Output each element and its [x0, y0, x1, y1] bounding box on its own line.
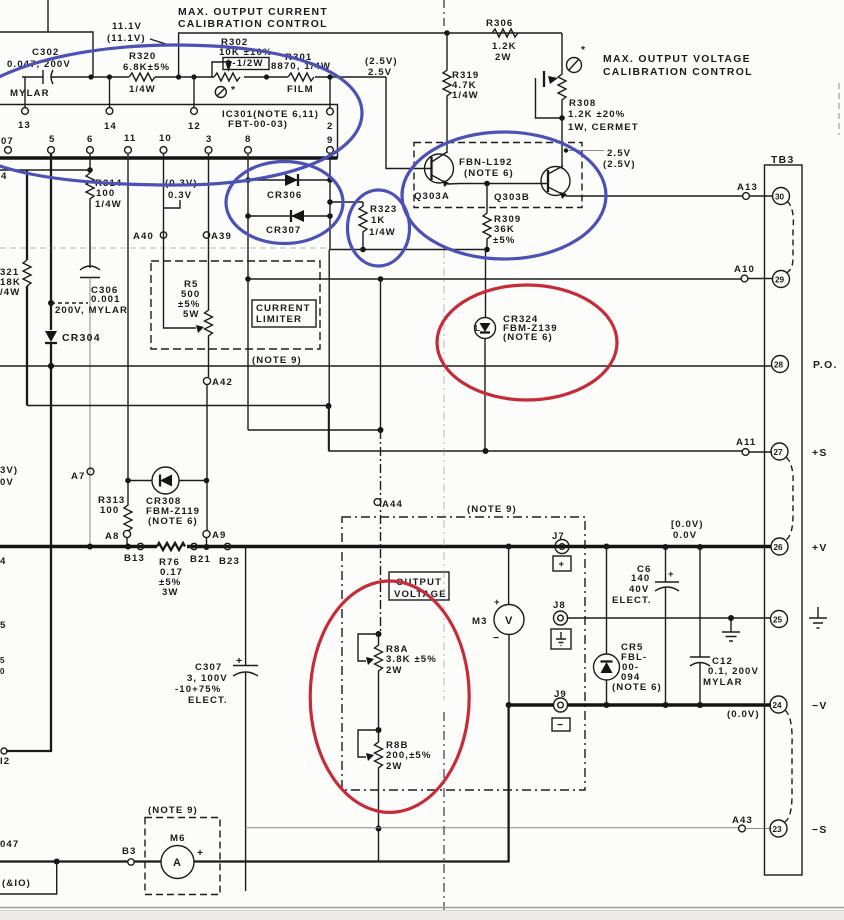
- wire -V rail y705: [509, 703, 771, 706]
- svg-text:200,±5%: 200,±5%: [386, 750, 432, 761]
- svg-text:5: 5: [0, 656, 5, 665]
- potentiometer R5: [196, 325, 204, 333]
- terminal 24: [770, 696, 787, 713]
- svg-text:A13: A13: [737, 182, 758, 193]
- wire P.O. net y365.5: [0, 365, 771, 367]
- pin 10 column wiper wire: [164, 153, 197, 328]
- svg-text:1/4W: 1/4W: [95, 199, 122, 210]
- wire A43 net y828: [246, 827, 739, 829]
- wire 11.1V node y77: [91, 76, 214, 78]
- svg-text:B3: B3: [122, 846, 136, 857]
- svg-text:1/4W: 1/4W: [369, 227, 396, 238]
- svg-text:0.1, 200V: 0.1, 200V: [708, 666, 759, 677]
- svg-text:(NOTE 6): (NOTE 6): [464, 168, 514, 179]
- terminal 28: [772, 356, 789, 373]
- svg-text:9: 9: [327, 135, 333, 146]
- dashed box output section: [342, 517, 585, 790]
- svg-text:(NOTE 6): (NOTE 6): [612, 682, 662, 693]
- svg-text:B13: B13: [124, 553, 145, 564]
- svg-text:2W: 2W: [495, 52, 512, 63]
- svg-text:12: 12: [188, 121, 201, 132]
- ground symbol TB25: [809, 607, 827, 628]
- wire stub to (&amp;10) box: [0, 862, 57, 895]
- junction R323 tap: [327, 199, 333, 205]
- svg-text:1K: 1K: [371, 215, 385, 226]
- svg-text:LIMITER: LIMITER: [256, 314, 302, 325]
- svg-text:R323: R323: [370, 204, 397, 215]
- ground box below J8: [551, 629, 571, 649]
- wire A44 column upper: [380, 279, 382, 430]
- svg-text:+: +: [494, 597, 501, 608]
- junction CR308 left: [125, 478, 131, 484]
- svg-text:FBN-L192: FBN-L192: [459, 157, 513, 168]
- svg-text:MYLAR: MYLAR: [703, 677, 743, 688]
- diode CR5: [606, 547, 608, 655]
- svg-text:/4W: /4W: [0, 287, 20, 298]
- svg-text:3W: 3W: [162, 587, 179, 598]
- top-right cut dashes: [838, 83, 840, 135]
- junction CR306 left: [245, 177, 251, 183]
- junction R8B top: [376, 727, 382, 733]
- svg-text:(NOTE 9): (NOTE 9): [252, 355, 302, 366]
- junction M6 left tap: [54, 859, 60, 865]
- svg-text:4: 4: [1, 171, 7, 182]
- diode CR324: [485, 250, 487, 318]
- svg-text:047: 047: [0, 839, 19, 850]
- svg-text:24: 24: [773, 701, 783, 710]
- svg-text:1.2K: 1.2K: [492, 41, 517, 52]
- svg-text:11: 11: [124, 133, 136, 144]
- junction: [88, 74, 93, 79]
- svg-text:1/4W: 1/4W: [452, 90, 479, 101]
- annotation red ellipse output voltage: [310, 581, 469, 812]
- junction: [107, 74, 112, 79]
- pin 6 column upper: [89, 153, 91, 173]
- wire net4 y170: [0, 169, 90, 171]
- junction CR304 bottom: [48, 363, 54, 369]
- svg-text:23: 23: [773, 825, 783, 834]
- node I2: [1, 748, 7, 754]
- junction C306 jog: [48, 300, 54, 306]
- svg-text:13: 13: [18, 120, 31, 131]
- IC301 box: [0, 105, 338, 158]
- junction rail C12: [697, 544, 703, 550]
- wire Q303A emitter to Q303B base: [448, 183, 548, 186]
- svg-text:*: *: [581, 45, 586, 56]
- junction -V CR5: [604, 702, 610, 708]
- junction CR306 right: [327, 177, 333, 183]
- svg-text:8: 8: [245, 134, 251, 145]
- svg-text:+S: +S: [812, 448, 828, 459]
- svg-text:A: A: [173, 857, 181, 869]
- svg-text:0.3V: 0.3V: [168, 190, 192, 201]
- wire M6 output y861.5: [0, 860, 380, 862]
- junction -V C12: [697, 702, 703, 708]
- sheet fold dash line x444: [443, 0, 445, 30]
- terminal 30: [773, 188, 790, 205]
- svg-text:CURRENT: CURRENT: [256, 303, 311, 314]
- faint scan line y248: [0, 247, 330, 249]
- svg-text:+: +: [236, 656, 243, 667]
- svg-text:J8: J8: [553, 600, 566, 611]
- svg-text:0V: 0V: [0, 477, 14, 488]
- svg-text:C307: C307: [195, 662, 222, 673]
- transistor Q303A: [425, 154, 454, 183]
- trimmer symbol R308: [567, 58, 582, 73]
- svg-text:3: 3: [206, 134, 212, 145]
- capacitor C12: [699, 547, 701, 658]
- svg-text:100: 100: [100, 505, 119, 516]
- svg-text:1-1/2W: 1-1/2W: [226, 58, 264, 69]
- wire bias node y249.5: [330, 249, 487, 251]
- junction CR304 net on P.O. line: [48, 363, 54, 369]
- svg-text:5W: 5W: [183, 309, 200, 320]
- resistor R321: [26, 170, 28, 260]
- svg-text:MAX. OUTPUT VOLTAGE: MAX. OUTPUT VOLTAGE: [603, 54, 751, 65]
- trimmer symbol R302: [215, 87, 226, 98]
- svg-text:ELECT.: ELECT.: [612, 595, 652, 606]
- capacitor C307: [245, 547, 247, 666]
- svg-text:A39: A39: [211, 231, 232, 242]
- wire A42 to A9: [206, 385, 208, 530]
- junction: [176, 74, 181, 79]
- svg-text:2W: 2W: [386, 761, 403, 772]
- junction rail x128: [125, 544, 131, 550]
- svg-text:CR307: CR307: [266, 225, 301, 236]
- wire jog to C306: [51, 302, 88, 304]
- svg-text:2.5V: 2.5V: [368, 67, 392, 78]
- svg-text:140: 140: [631, 573, 650, 584]
- resistor R314: [86, 173, 94, 268]
- svg-text:1W, CERMET: 1W, CERMET: [568, 122, 639, 133]
- junction CR307 right: [327, 213, 333, 219]
- wire y33 control line: [179, 33, 562, 77]
- svg-text:1/4W: 1/4W: [129, 84, 156, 95]
- resistor R320: [129, 73, 155, 81]
- wire y430: [248, 429, 381, 431]
- svg-text:14: 14: [104, 121, 117, 132]
- diode CR307: [248, 215, 330, 217]
- jumper 27-26 dashed: [786, 457, 793, 540]
- annotation red ellipse CR324: [437, 285, 617, 400]
- svg-text:2.5V: 2.5V: [607, 148, 631, 159]
- svg-text:A40: A40: [133, 231, 154, 242]
- svg-text:4: 4: [0, 556, 6, 567]
- pin 12: [193, 77, 195, 108]
- svg-text:5: 5: [0, 620, 6, 631]
- wire A11 riser: [328, 406, 330, 451]
- svg-text:27: 27: [774, 448, 784, 457]
- svg-text:R320: R320: [129, 51, 156, 62]
- node A42: [203, 377, 210, 384]
- wire main +V rail y546.5: [0, 545, 771, 548]
- svg-text:P.O.: P.O.: [813, 360, 838, 371]
- svg-text:30: 30: [775, 193, 785, 202]
- pad B21: [191, 543, 197, 549]
- wire M3/M6 return column: [380, 705, 509, 862]
- junction R308 bottom: [559, 115, 565, 121]
- junction A44 top: [378, 427, 384, 433]
- pad B23: [224, 543, 230, 549]
- wire J8 to TB25: [568, 617, 772, 619]
- pad B13: [137, 543, 143, 549]
- wire A11 net y451: [329, 450, 744, 452]
- svg-text:2W: 2W: [386, 665, 403, 676]
- svg-text:*: *: [231, 85, 236, 96]
- svg-text:(NOTE 9): (NOTE 9): [467, 504, 517, 515]
- svg-text:3V): 3V): [0, 465, 18, 476]
- svg-text:+: +: [668, 569, 675, 580]
- svg-text:A8: A8: [105, 531, 119, 542]
- svg-text:CR306: CR306: [267, 190, 302, 201]
- wire R308 to Q303B collector: [561, 118, 563, 168]
- svg-text:±5%: ±5%: [493, 235, 515, 246]
- svg-text:(NOTE 6): (NOTE 6): [503, 332, 553, 343]
- svg-text:−V: −V: [812, 701, 828, 712]
- svg-text:(NOTE 6): (NOTE 6): [148, 516, 198, 527]
- svg-text:100: 100: [96, 188, 115, 199]
- junction R309 bottom: [484, 247, 490, 253]
- svg-text:36K: 36K: [494, 224, 515, 235]
- terminal 26: [771, 538, 788, 555]
- junction CR307 left: [245, 213, 251, 219]
- svg-text:+V: +V: [812, 543, 828, 554]
- wire A10 net y279: [248, 278, 742, 280]
- junction: [264, 74, 269, 79]
- svg-text:0: 0: [0, 667, 5, 676]
- svg-text:(11.1V): (11.1V): [107, 33, 146, 44]
- svg-text:ELECT.: ELECT.: [188, 695, 228, 706]
- svg-text:MAX. OUTPUT CURRENT: MAX. OUTPUT CURRENT: [178, 7, 328, 18]
- svg-text:+: +: [197, 848, 204, 859]
- svg-text:200V, MYLAR: 200V, MYLAR: [55, 305, 128, 316]
- svg-text:6: 6: [87, 134, 93, 145]
- terminal 29: [773, 271, 790, 288]
- dashed box M6: [145, 818, 220, 895]
- terminal 27: [771, 443, 788, 460]
- wire 2.5V to Q303A base: [386, 77, 431, 169]
- junction -V M3: [506, 702, 512, 708]
- svg-text:0.001: 0.001: [91, 294, 121, 305]
- svg-text:MYLAR: MYLAR: [10, 88, 50, 99]
- diode CR308: [128, 480, 152, 482]
- svg-text:1.2K ±20%: 1.2K ±20%: [568, 109, 625, 120]
- resistor R319: [443, 33, 451, 153]
- svg-text:[0.0V): [0.0V): [671, 519, 704, 530]
- transistor Q303B: [541, 167, 570, 196]
- svg-text:CALIBRATION CONTROL: CALIBRATION CONTROL: [603, 67, 753, 78]
- junction CR324 bottom: [483, 448, 489, 454]
- svg-text:Q303B: Q303B: [494, 192, 530, 203]
- pin 8 column: [247, 153, 249, 430]
- potentiometer R8B: [375, 730, 383, 862]
- svg-text:CR304: CR304: [62, 333, 101, 344]
- svg-text:29: 29: [775, 276, 785, 285]
- svg-text:B21: B21: [190, 554, 211, 565]
- potentiometer R302: [214, 73, 240, 81]
- svg-text:A44: A44: [382, 499, 403, 510]
- svg-text:3.8K ±5%: 3.8K ±5%: [386, 654, 437, 665]
- wire Q303B emitter to A13: [566, 195, 743, 197]
- svg-text:0.0V: 0.0V: [673, 530, 697, 541]
- resistor R301: [288, 73, 314, 81]
- junction A43 tap: [376, 826, 382, 832]
- annotation blue ellipse Q303 pair: [402, 132, 606, 259]
- svg-text:FBT-00-03): FBT-00-03): [228, 119, 288, 130]
- svg-text:L: L: [475, 324, 480, 333]
- CURRENT LIMITER label box: [252, 300, 316, 327]
- dashed box FBN-L192 pair: [414, 143, 582, 208]
- pin 5 column: [50, 153, 52, 303]
- svg-text:−: −: [493, 633, 500, 644]
- svg-text:(2.5V): (2.5V): [603, 159, 636, 170]
- svg-text:−: −: [557, 720, 564, 731]
- node A44: [374, 499, 381, 506]
- junction pin8 A10 line: [245, 276, 251, 282]
- svg-text:-10+75%: -10+75%: [175, 684, 221, 695]
- junction rail x90: [87, 544, 93, 550]
- node A44 dash column: [380, 430, 382, 634]
- junction CR308 right: [204, 478, 210, 484]
- resistor R76 (in rail): [157, 543, 185, 550]
- wire from off-page top-left: [0, 32, 93, 77]
- svg-text:3, 100V: 3, 100V: [187, 673, 228, 684]
- svg-text:R308: R308: [569, 98, 596, 109]
- terminal 23: [770, 820, 787, 837]
- ground at J8 line: [722, 618, 740, 641]
- svg-text:R306: R306: [486, 18, 513, 29]
- junction: [191, 74, 196, 79]
- junction rail x206.5: [204, 544, 210, 550]
- junction -V C6: [663, 702, 669, 708]
- svg-text:A42: A42: [212, 377, 233, 388]
- resistor R306: [492, 29, 518, 37]
- wire I2 column: [6, 366, 51, 751]
- junction R323 bottom: [360, 247, 366, 253]
- junction J8 ground: [728, 615, 734, 621]
- jumper 24-23 dashed: [785, 710, 792, 822]
- junction rail C6: [663, 544, 669, 550]
- resistor R313: [124, 153, 132, 531]
- annotation blue ellipse R323: [348, 190, 410, 266]
- svg-text:07: 07: [1, 136, 14, 147]
- svg-text:6.8K±5%: 6.8K±5%: [123, 62, 170, 73]
- svg-text:M3: M3: [472, 616, 488, 627]
- junction rail M3: [506, 544, 512, 550]
- svg-text:FILM: FILM: [287, 84, 314, 95]
- wire y405.5: [27, 405, 329, 407]
- svg-text:40V: 40V: [629, 584, 649, 595]
- svg-text:A10: A10: [734, 264, 755, 275]
- annotation blue ellipse IC301 area: [0, 45, 362, 185]
- svg-text:28: 28: [774, 361, 784, 370]
- junction pin2 top: [327, 74, 332, 79]
- pin 14: [109, 77, 111, 108]
- annotation blue ellipse CR306/CR307: [226, 162, 343, 244]
- junction A10 net x380.5: [378, 276, 384, 282]
- junction R8A top: [376, 631, 382, 637]
- svg-text:−S: −S: [812, 825, 828, 836]
- svg-text:Q303A: Q303A: [414, 191, 450, 202]
- node A9: [203, 530, 210, 537]
- svg-text:I2: I2: [0, 756, 10, 767]
- pin 9 column: [328, 153, 331, 451]
- capacitor C306: [80, 266, 100, 270]
- svg-text:5: 5: [49, 134, 55, 145]
- svg-text:11.1V: 11.1V: [112, 21, 142, 32]
- svg-text:(NOTE 9): (NOTE 9): [148, 805, 198, 816]
- wire stub from top edge: [47, 0, 49, 32]
- wire R323 top: [330, 201, 363, 203]
- svg-text:26: 26: [774, 543, 784, 552]
- potentiometer R8A: [375, 634, 383, 730]
- diode CR304: [50, 303, 52, 330]
- current limiter dashed box: [151, 261, 320, 349]
- capacitor C302: [22, 70, 91, 84]
- svg-text:B23: B23: [219, 556, 240, 567]
- resistor R323: [359, 202, 367, 250]
- svg-text:A7: A7: [71, 471, 85, 482]
- junction rail CR5: [604, 544, 610, 550]
- svg-text:M6: M6: [170, 833, 186, 844]
- svg-text:25: 25: [773, 616, 783, 625]
- diode CR306: [248, 179, 330, 181]
- bottom window bar: [0, 907, 844, 909]
- jumper 30-29 dashed: [786, 201, 793, 273]
- svg-text:A11: A11: [736, 437, 756, 448]
- svg-text:(0.0V): (0.0V): [727, 709, 760, 720]
- terminal 25: [771, 611, 788, 628]
- svg-text:2: 2: [327, 121, 333, 132]
- resistor R309: [483, 184, 491, 250]
- node A39: [203, 232, 209, 238]
- junction R314 top: [87, 167, 93, 173]
- svg-text:A9: A9: [212, 530, 226, 541]
- potentiometer R308: [558, 33, 566, 118]
- svg-text:(2.5V): (2.5V): [365, 56, 398, 67]
- capacitor C6: [665, 547, 667, 583]
- svg-text:A43: A43: [732, 815, 753, 826]
- junction y405.5: [326, 403, 332, 409]
- svg-text:10: 10: [159, 133, 172, 144]
- voltmeter M3: [508, 547, 510, 606]
- junction R306 left: [444, 30, 450, 36]
- node 2.5V (2.5V) pointer: [564, 148, 568, 152]
- OUTPUT VOLTAGE label box: [389, 572, 449, 600]
- svg-text:(&IO): (&IO): [2, 878, 31, 889]
- svg-text:V: V: [505, 615, 513, 627]
- svg-text:CALIBRATION CONTROL: CALIBRATION CONTROL: [178, 19, 328, 30]
- pin 2: [329, 77, 331, 108]
- svg-text:+: +: [559, 559, 566, 570]
- junction R309 top: [484, 181, 490, 187]
- pin 13: [24, 77, 26, 108]
